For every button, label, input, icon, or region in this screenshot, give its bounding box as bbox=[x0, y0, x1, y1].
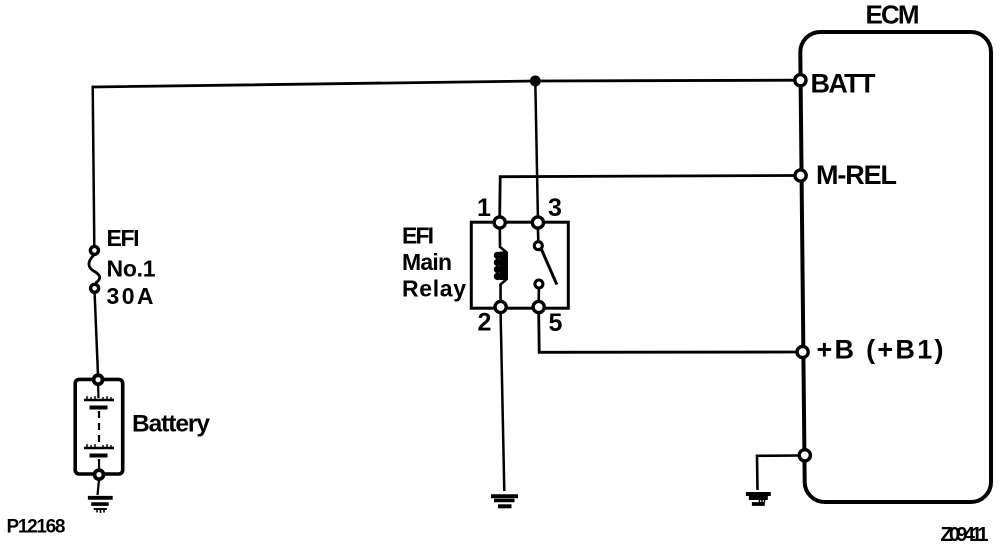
relay box: EFI Main Relay bbox=[471, 222, 568, 308]
svg-text:3: 3 bbox=[548, 194, 562, 222]
battery: positive terminal circle bbox=[94, 375, 103, 384]
ECM terminal ground circle bbox=[799, 450, 810, 461]
ECM terminal BATT circle bbox=[795, 75, 806, 86]
battery: cell-dash link bbox=[98, 411, 100, 444]
wire: battery to ground bbox=[98, 480, 100, 495]
ground: relay ground symbol bbox=[491, 496, 518, 506]
relay coil L: lead to pin2 bbox=[501, 280, 507, 302]
relay coil L: lead from pin1 bbox=[500, 228, 507, 252]
wire: relay pin 2 down to ground bbox=[501, 313, 505, 492]
battery: bottom stub bbox=[98, 459, 100, 469]
node: junction on battery feed bbox=[530, 76, 541, 87]
relay pin 5 circle bbox=[533, 301, 544, 312]
battery: top stub bbox=[97, 385, 100, 398]
wire: main battery feed (top horizontal) bbox=[93, 80, 795, 87]
svg-text:Main: Main bbox=[402, 249, 452, 275]
svg-text:M-REL: M-REL bbox=[816, 160, 897, 190]
svg-text:5: 5 bbox=[549, 309, 563, 337]
svg-text:BATT: BATT bbox=[811, 69, 877, 99]
relay pin 2 circle bbox=[495, 301, 506, 312]
relay switch: blade (open) bbox=[542, 250, 557, 285]
svg-text:EFI: EFI bbox=[107, 225, 140, 251]
relay pin 1 circle bbox=[494, 217, 505, 228]
svg-text:P12168: P12168 bbox=[7, 517, 66, 538]
ground: battery ground symbol bbox=[88, 498, 113, 513]
fuse F1 EFI No.1 30A: body bbox=[89, 256, 100, 284]
wire: relay pin 1 up and right to M-REL bbox=[500, 176, 795, 218]
svg-text:EFI: EFI bbox=[402, 223, 434, 249]
ECM terminal M-REL circle bbox=[795, 170, 806, 181]
wire: fuse to battery bbox=[95, 293, 98, 375]
svg-text:Z09411: Z09411 bbox=[941, 524, 989, 546]
battery: positive plate (long) with hatch bbox=[84, 399, 114, 401]
svg-text:1: 1 bbox=[477, 194, 491, 222]
svg-text:30A: 30A bbox=[107, 283, 154, 309]
fuse F1: bottom terminal circle bbox=[91, 284, 99, 292]
relay switch: lead from pin3 bbox=[537, 228, 540, 241]
wire: relay pin 5 down and right to +B bbox=[539, 313, 797, 353]
battery: negative terminal circle bbox=[95, 470, 104, 479]
wire: ECM ground terminal to ground bbox=[757, 456, 799, 491]
ECM box outline bbox=[800, 32, 991, 502]
relay pin 3 circle bbox=[532, 217, 543, 228]
wire: top-left drop to fuse bbox=[93, 86, 95, 246]
relay switch: top contact bbox=[534, 242, 542, 250]
svg-text:No.1: No.1 bbox=[107, 256, 156, 282]
svg-text:+B (+B1): +B (+B1) bbox=[817, 335, 944, 365]
svg-text:Relay: Relay bbox=[402, 276, 466, 302]
svg-text:Battery: Battery bbox=[132, 411, 210, 438]
svg-text:ECM: ECM bbox=[866, 0, 920, 30]
svg-text:2: 2 bbox=[478, 309, 492, 337]
relay switch: bottom contact bbox=[535, 280, 543, 288]
battery: negative plate 2 (short thick) bbox=[90, 454, 108, 458]
relay switch: lead to pin5 bbox=[537, 289, 540, 302]
ECM terminal +B circle bbox=[797, 346, 808, 357]
battery BAT1: outline box bbox=[75, 379, 123, 474]
battery: negative plate (short thick) bbox=[90, 406, 108, 410]
fuse F1: top terminal circle bbox=[90, 246, 98, 254]
battery: positive plate 2 (long) with hatch bbox=[84, 447, 114, 449]
ground: ECM ground symbol bbox=[746, 494, 771, 504]
relay coil L: winding bumps bbox=[494, 252, 508, 281]
wire: junction down to relay pin 3 bbox=[535, 81, 538, 218]
